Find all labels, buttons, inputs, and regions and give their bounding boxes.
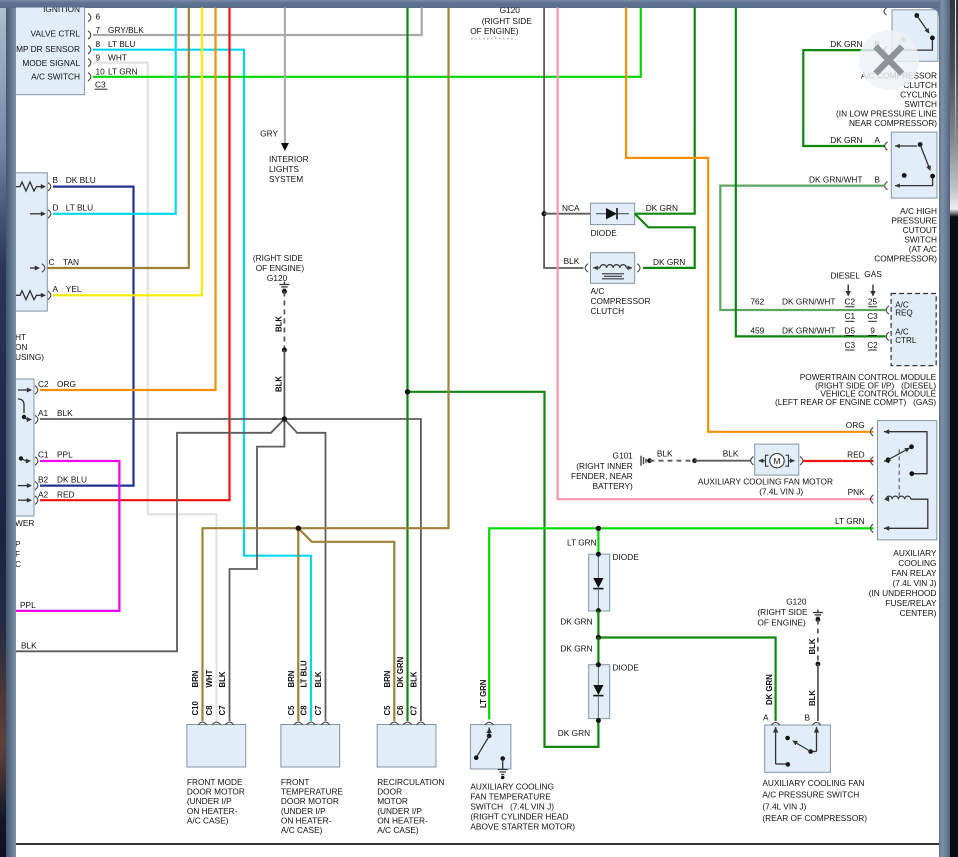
svg-text:BLK: BLK — [564, 256, 580, 266]
svg-text:C3: C3 — [844, 340, 855, 350]
svg-text:C7: C7 — [409, 706, 418, 716]
svg-text:PPL: PPL — [57, 450, 73, 460]
svg-text:(UNDER I/P: (UNDER I/P — [377, 806, 422, 816]
svg-text:BRN: BRN — [287, 670, 296, 687]
svg-text:BLK: BLK — [57, 408, 73, 418]
wire PNK to relay — [558, 7, 874, 499]
wire LT GRN pin10 — [93, 7, 641, 77]
svg-text:M: M — [774, 456, 781, 466]
label under box3 clipped — [15, 518, 34, 569]
svg-text:BLK: BLK — [808, 690, 817, 706]
svg-text:459: 459 — [750, 326, 764, 336]
svg-text:BLK: BLK — [723, 448, 739, 458]
svg-text:C3: C3 — [95, 80, 106, 90]
svg-text:ORG: ORG — [846, 420, 865, 430]
label right side on housing clipped — [15, 332, 44, 362]
svg-text:F: F — [15, 549, 20, 559]
svg-text:WER: WER — [15, 518, 34, 528]
node LT GRN — [596, 526, 601, 531]
svg-text:LT GRN: LT GRN — [108, 66, 138, 76]
svg-text:OF ENGINE): OF ENGINE) — [470, 26, 519, 36]
svg-text:LT GRN: LT GRN — [835, 516, 865, 526]
svg-text:DK GRN: DK GRN — [653, 257, 685, 267]
svg-text:LT BLU: LT BLU — [66, 202, 93, 212]
svg-text:6: 6 — [96, 12, 101, 22]
svg-text:GAS: GAS — [864, 269, 882, 279]
svg-text:HT: HT — [15, 332, 26, 342]
svg-text:(RIGHT SIDE: (RIGHT SIDE — [253, 253, 304, 263]
pin C arrow — [30, 266, 40, 271]
label G101 — [571, 451, 633, 492]
module connector box3 — [0, 379, 34, 516]
wire TAN branch to recirculation motor C5 — [298, 528, 394, 721]
wire DK GRN from diode D1 — [635, 7, 695, 214]
svg-text:(7.4L VIN J): (7.4L VIN J) — [762, 801, 806, 811]
svg-text:A/C CASE): A/C CASE) — [377, 825, 419, 835]
svg-text:(UNDER I/P: (UNDER I/P — [281, 806, 326, 816]
pin 9 label WHT — [88, 52, 127, 66]
wire RED fan motor to relay — [803, 460, 874, 462]
svg-text:TEMP DR SENSOR: TEMP DR SENSOR — [5, 44, 80, 54]
label GAS — [864, 269, 882, 297]
wire ORG pin C2 — [40, 7, 216, 390]
A/C compressor clutch coil — [585, 253, 640, 284]
svg-text:AUXILIARY COOLING FAN MOTOR: AUXILIARY COOLING FAN MOTOR — [698, 477, 833, 487]
svg-text:COMPRESSOR: COMPRESSOR — [591, 296, 651, 306]
svg-text:DK GRN: DK GRN — [830, 39, 862, 49]
pin A label YEL — [48, 284, 82, 300]
svg-text:FRONT MODE: FRONT MODE — [187, 777, 243, 787]
svg-text:VALVE CTRL: VALVE CTRL — [31, 29, 81, 39]
svg-text:DK GRN: DK GRN — [830, 135, 862, 145]
svg-text:DIODE: DIODE — [613, 663, 640, 673]
svg-text:DIESEL: DIESEL — [830, 271, 860, 281]
svg-text:LT GRN: LT GRN — [567, 538, 597, 548]
svg-text:FENDER, NEAR: FENDER, NEAR — [571, 471, 633, 481]
svg-text:BATTERY): BATTERY) — [593, 481, 633, 491]
label auxiliary cooling fan relay — [869, 548, 937, 618]
svg-text:USING): USING) — [15, 352, 44, 362]
svg-text:DOOR MOTOR: DOOR MOTOR — [187, 787, 245, 797]
svg-text:25: 25 — [868, 297, 878, 307]
svg-text:MODE SIGNAL: MODE SIGNAL — [22, 58, 80, 68]
recirculation box — [377, 722, 436, 767]
svg-text:D: D — [53, 202, 59, 212]
powertrain control module connector — [886, 294, 936, 366]
svg-text:C10: C10 — [191, 701, 200, 716]
svg-text:AUXILIARY: AUXILIARY — [893, 548, 937, 558]
pin B2 internal arrow — [18, 483, 32, 488]
connector C3 label — [95, 80, 108, 90]
svg-text:C7: C7 — [218, 706, 227, 716]
wire TAN vertical from top — [203, 7, 449, 721]
svg-text:RED: RED — [57, 490, 75, 500]
node DK GRN diodes — [596, 635, 601, 640]
svg-text:YEL: YEL — [66, 284, 82, 294]
pin labels C10 C8 C7 — [191, 701, 227, 716]
svg-text:FAN RELAY: FAN RELAY — [891, 568, 936, 578]
wire BLK G101 dashed splice — [650, 448, 697, 463]
svg-text:BLK: BLK — [657, 448, 673, 458]
ground G120 center — [279, 282, 289, 295]
svg-text:(RIGHT INNER: (RIGHT INNER — [576, 461, 633, 471]
svg-text:C: C — [15, 559, 21, 569]
svg-text:RECIRCULATION: RECIRCULATION — [377, 777, 444, 787]
svg-text:G120: G120 — [500, 5, 521, 15]
svg-text:A1: A1 — [38, 408, 49, 418]
svg-text:DK GRN: DK GRN — [646, 203, 678, 213]
svg-text:9: 9 — [96, 52, 101, 62]
ground G101 — [641, 456, 652, 466]
label front — [281, 777, 344, 835]
svg-text:C1: C1 — [844, 311, 855, 321]
svg-text:IGNITION: IGNITION — [43, 4, 80, 14]
pin C label TAN — [42, 257, 79, 272]
svg-text:DK GRN/WHT: DK GRN/WHT — [782, 326, 835, 336]
svg-text:(7.4L VIN J): (7.4L VIN J) — [893, 578, 937, 588]
svg-text:DK GRN: DK GRN — [765, 674, 774, 705]
wire WHT pin9 to front mode door motor C8 — [93, 63, 217, 721]
svg-text:DOOR: DOOR — [377, 787, 402, 797]
wire BLK junction branch to left edge — [16, 419, 284, 651]
svg-text:(7.4L VIN J): (7.4L VIN J) — [759, 486, 803, 496]
label DK GRN B — [830, 39, 880, 49]
auxiliary cooling fan temperature switch — [470, 722, 511, 779]
ground G120 right — [813, 610, 823, 622]
wire DK GRN vertical to recirculation door motor C6 — [406, 7, 408, 721]
svg-text:WHT: WHT — [205, 670, 214, 688]
A/C compressor clutch cycling switch — [884, 8, 938, 61]
svg-text:ON HEATER-: ON HEATER- — [187, 806, 238, 816]
svg-text:CLUTCH: CLUTCH — [591, 306, 625, 316]
svg-text:WHT: WHT — [108, 52, 127, 62]
svg-text:C1: C1 — [38, 450, 49, 460]
svg-text:BLK: BLK — [275, 316, 284, 332]
wire BLK junction to recirculation door motor C7 — [284, 419, 421, 721]
svg-text:(IN UNDERHOOD: (IN UNDERHOOD — [869, 588, 937, 598]
label auxiliary cooling fan temperature switch — [470, 782, 575, 832]
wire RED pin A2 — [40, 7, 230, 500]
svg-text:A/C: A/C — [591, 286, 605, 296]
pin labels C5 C8 C7 — [287, 705, 323, 716]
svg-text:ON HEATER-: ON HEATER- — [281, 815, 332, 825]
svg-text:A2: A2 — [38, 490, 49, 500]
svg-text:FAN TEMPERATURE: FAN TEMPERATURE — [470, 792, 551, 802]
pin C1 internal contact — [19, 456, 31, 463]
svg-text:BLK: BLK — [21, 640, 37, 650]
pin C2 internal arrow — [18, 388, 32, 393]
svg-text:SYSTEM: SYSTEM — [269, 174, 303, 184]
wire BLK to junction — [275, 350, 285, 419]
label A/C compressor clutch cycling switch — [836, 71, 937, 128]
svg-text:NCA: NCA — [562, 203, 580, 213]
wire BLK junction to front mode door motor C7 — [230, 419, 285, 721]
diode D1 — [591, 203, 635, 238]
label recirculation — [377, 777, 444, 835]
label front mode — [187, 777, 245, 825]
junction node BLK — [282, 416, 287, 421]
svg-text:ORG: ORG — [57, 379, 76, 389]
svg-text:C5: C5 — [287, 705, 296, 716]
svg-text:C2: C2 — [867, 340, 878, 350]
svg-text:G101: G101 — [613, 451, 634, 461]
svg-text:C8: C8 — [205, 705, 214, 716]
pin B label DK BLU — [48, 175, 96, 191]
svg-text:GRY/BLK: GRY/BLK — [108, 25, 144, 35]
wire DK GRN node to diode D3 — [560, 638, 598, 665]
svg-text:OF ENGINE): OF ENGINE) — [757, 618, 806, 628]
svg-text:MOTOR: MOTOR — [377, 796, 408, 806]
node TAN junction — [296, 526, 301, 531]
wire DK GRN/WHT circuit 459 to PCM — [736, 7, 886, 336]
svg-text:B: B — [53, 175, 59, 185]
svg-text:PPL: PPL — [20, 600, 36, 610]
svg-text:C2: C2 — [844, 297, 855, 307]
svg-text:CTRL: CTRL — [895, 336, 917, 345]
pin A1 label BLK — [35, 408, 73, 424]
wire labels BRN WHT BLK — [191, 670, 227, 688]
svg-text:SWITCH (7.4L VIN J): SWITCH (7.4L VIN J) — [470, 802, 554, 812]
pin 6 — [88, 12, 101, 22]
pin 8 label LT BLU — [88, 39, 135, 54]
svg-text:COOLING: COOLING — [898, 558, 936, 568]
close button overlay — [859, 30, 919, 90]
front box — [281, 722, 340, 767]
svg-text:DOOR MOTOR: DOOR MOTOR — [281, 796, 339, 806]
svg-text:BLK: BLK — [409, 671, 418, 687]
wire YEL pin A — [53, 7, 202, 295]
svg-text:CENTER): CENTER) — [900, 608, 937, 618]
wire TAN pin C — [47, 7, 189, 268]
label A/C high pressure cutout switch — [874, 206, 937, 263]
svg-text:AUXILIARY COOLING FAN: AUXILIARY COOLING FAN — [762, 778, 864, 788]
svg-text:A/C CASE): A/C CASE) — [281, 825, 323, 835]
label A/C compressor clutch — [591, 286, 651, 316]
svg-text:BLK: BLK — [808, 638, 817, 654]
wire BLK to pressure switch B — [808, 664, 818, 721]
label auxiliary cooling fan motor — [698, 477, 833, 497]
svg-text:A/C SWITCH: A/C SWITCH — [31, 71, 80, 81]
wire DK GRN node to pressure switch A — [598, 638, 775, 722]
svg-text:DK BLU: DK BLU — [57, 475, 87, 485]
svg-text:LT BLU: LT BLU — [300, 660, 309, 688]
svg-text:BLK: BLK — [275, 376, 284, 392]
pin B2 label DK BLU — [35, 475, 87, 490]
label auxiliary cooling fan A/C pressure switch — [762, 778, 867, 823]
svg-text:DK GRN: DK GRN — [558, 728, 590, 738]
pin labels C5 C6 C7 — [383, 705, 419, 716]
blower resistor box — [0, 173, 47, 311]
svg-text:DK GRN: DK GRN — [396, 656, 405, 687]
svg-text:A: A — [53, 284, 59, 294]
front mode box — [187, 722, 246, 767]
wire LT GRN to relay and temperature switch — [489, 528, 873, 719]
label 459 DK GRN/WHT D5 9 — [750, 326, 877, 336]
wire LT BLU pin8 to front temperature door motor C8 — [93, 50, 311, 721]
svg-text:P: P — [15, 539, 21, 549]
svg-text:GRY: GRY — [260, 129, 278, 139]
svg-text:(RIGHT CYLINDER HEAD: (RIGHT CYLINDER HEAD — [470, 811, 568, 821]
svg-text:B: B — [874, 175, 880, 185]
svg-text:BRN: BRN — [191, 670, 200, 687]
svg-text:A/C PRESSURE SWITCH: A/C PRESSURE SWITCH — [762, 790, 859, 800]
svg-text:(RIGHT SIDE: (RIGHT SIDE — [757, 607, 808, 617]
wire DK GRN branch to diodes — [408, 392, 599, 747]
svg-text:PNK: PNK — [848, 487, 866, 497]
svg-text:8: 8 — [96, 39, 101, 49]
wire ORG to relay — [626, 7, 874, 432]
svg-text:BRN: BRN — [383, 670, 392, 687]
svg-text:NEAR COMPRESSOR): NEAR COMPRESSOR) — [849, 118, 937, 128]
svg-text:AUXILIARY COOLING: AUXILIARY COOLING — [470, 782, 554, 792]
svg-text:DK GRN/WHT: DK GRN/WHT — [782, 297, 835, 307]
svg-text:DK GRN/WHT: DK GRN/WHT — [809, 175, 862, 185]
pin 7 label GRY/BLK — [88, 25, 144, 39]
resistor element pin A — [16, 291, 46, 300]
svg-text:LT BLU: LT BLU — [108, 39, 135, 49]
wire DK GRN cycling switch B to cutout switch A — [803, 50, 884, 146]
svg-text:FRONT: FRONT — [281, 777, 310, 787]
svg-text:TAN: TAN — [63, 257, 79, 267]
svg-text:C5: C5 — [383, 705, 392, 716]
resistor element pin B — [16, 182, 46, 191]
pin D label LT BLU — [48, 202, 93, 218]
wire GRY/BLK pin7 — [93, 7, 422, 35]
svg-text:7: 7 — [96, 25, 101, 35]
pin A1 internal contact — [18, 399, 32, 422]
auxiliary cooling fan relay — [870, 421, 936, 540]
label DK GRN/WHT B — [809, 175, 880, 185]
label DIESEL — [830, 271, 860, 297]
svg-text:DIODE: DIODE — [591, 228, 618, 238]
wire labels BRN DK GRN BLK — [383, 656, 419, 687]
pin A2 label RED — [35, 490, 75, 505]
diagram sheet bottom border — [16, 843, 939, 845]
svg-text:B: B — [805, 713, 811, 723]
node DK GRN branch — [405, 389, 410, 394]
label interior lights system — [269, 154, 309, 184]
auxiliary cooling fan motor — [751, 444, 803, 475]
label G120 right side of engine right — [757, 597, 808, 628]
label powertrain control module — [775, 372, 937, 407]
wire DK GRN diode D1 to compressor clutch — [635, 214, 695, 268]
svg-text:A: A — [763, 713, 769, 723]
svg-text:762: 762 — [750, 297, 764, 307]
svg-text:B2: B2 — [38, 475, 49, 485]
wire GRY to interior lights system — [260, 7, 289, 151]
svg-text:BLK: BLK — [314, 671, 323, 687]
svg-text:BLK: BLK — [218, 671, 227, 687]
svg-text:A: A — [874, 135, 880, 145]
svg-text:9: 9 — [870, 326, 875, 336]
svg-text:RED: RED — [847, 449, 865, 459]
wire BLK junction to front temperature door motor C7 — [284, 419, 325, 721]
svg-text:DIODE: DIODE — [613, 552, 640, 562]
label C1 C3 row — [844, 311, 878, 321]
svg-text:OF ENGINE): OF ENGINE) — [256, 263, 305, 273]
wire labels BRN LT BLU BLK — [287, 660, 323, 688]
label G120 right side of engine center — [253, 253, 304, 283]
svg-text:C2: C2 — [38, 379, 49, 389]
wire DK GRN/WHT circuit 762 to PCM — [720, 186, 885, 310]
svg-text:A/C CASE): A/C CASE) — [187, 815, 229, 825]
svg-text:(LEFT REAR OF ENGINE COMPT): (LEFT REAR OF ENGINE COMPT) (GAS) — [775, 397, 936, 407]
svg-text:ON HEATER-: ON HEATER- — [377, 815, 428, 825]
A/C high pressure cutout switch — [885, 132, 937, 198]
svg-text:DK GRN: DK GRN — [560, 617, 592, 627]
svg-text:INTERIOR: INTERIOR — [269, 154, 309, 164]
wire LT BLU pin D — [53, 7, 176, 214]
svg-text:ON: ON — [15, 342, 27, 352]
diode D3 — [589, 662, 640, 723]
pin D arrow — [30, 211, 46, 216]
svg-text:COMPRESSOR): COMPRESSOR) — [874, 253, 937, 263]
pin C1 label PPL — [35, 450, 73, 465]
svg-text:C6: C6 — [396, 705, 405, 716]
label 762 DK GRN/WHT C2 25 — [750, 297, 877, 307]
label G120 right side of engine top — [470, 5, 532, 36]
svg-text:ABOVE STARTER MOTOR): ABOVE STARTER MOTOR) — [470, 821, 575, 831]
pin 10 label LT GRN — [88, 66, 138, 81]
pin A2 internal arrow — [18, 498, 32, 503]
svg-text:C: C — [49, 257, 55, 267]
svg-text:REQ: REQ — [895, 309, 913, 318]
wire DK GRN diode D2 to node — [560, 611, 598, 638]
wire LT GRN to diode D2 — [597, 528, 599, 554]
HVAC control module connector box — [0, 0, 85, 95]
svg-text:FUSE/RELAY: FUSE/RELAY — [885, 598, 936, 608]
svg-text:DK GRN: DK GRN — [560, 643, 592, 653]
svg-text:C3: C3 — [867, 311, 878, 321]
diode D2 — [589, 552, 640, 613]
svg-text:DK BLU: DK BLU — [66, 175, 96, 185]
pin C2 label ORG — [35, 379, 76, 394]
auxiliary cooling fan A/C pressure switch — [765, 722, 831, 772]
svg-text:LIGHTS: LIGHTS — [269, 164, 299, 174]
wire TAN branch to front temperature motor C5 — [297, 528, 299, 721]
svg-text:10: 10 — [96, 66, 106, 76]
wire BLK dashed splice right — [808, 620, 820, 667]
svg-text:(RIGHT SIDE: (RIGHT SIDE — [482, 16, 533, 26]
svg-text:C8: C8 — [300, 705, 309, 716]
wire PPL pin C1 — [16, 461, 119, 611]
wire BLK splice dashed from G120 — [275, 292, 287, 353]
svg-text:C7: C7 — [314, 706, 323, 716]
svg-text:G120: G120 — [786, 597, 807, 607]
wire BLK NCA vertical — [542, 7, 591, 268]
svg-text:(UNDER I/P: (UNDER I/P — [187, 796, 232, 806]
wire DK BLU pin B to pin B2 — [40, 187, 134, 486]
label C3 C2 row — [844, 340, 878, 350]
svg-text:D5: D5 — [844, 326, 855, 336]
svg-text:(REAR OF COMPRESSOR): (REAR OF COMPRESSOR) — [762, 813, 867, 823]
label DK GRN A — [830, 135, 880, 145]
wire BLK pin A1 to junction — [40, 418, 284, 420]
svg-text:LT GRN: LT GRN — [479, 679, 488, 708]
wire BLK to fan motor — [695, 448, 751, 460]
svg-text:TEMPERATURE: TEMPERATURE — [281, 787, 344, 797]
dotted mark under G120 text — [471, 38, 513, 40]
